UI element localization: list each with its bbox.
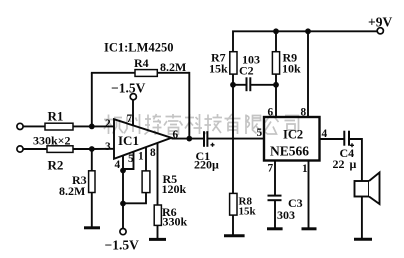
input terminal J2 [17, 146, 23, 152]
capacitor C4 [344, 131, 349, 146]
svg-text:10k: 10k [282, 62, 301, 76]
wire IC2 pin7 to C3 [274, 161, 276, 196]
wire R3 to ground [91, 193, 93, 228]
svg-text:−1.5V: −1.5V [111, 81, 146, 96]
wire pin4 down [122, 156, 124, 171]
wire feedback top left [91, 72, 135, 74]
resistor R7 [230, 52, 237, 74]
op-amp U1 IC1 triangle [114, 119, 172, 159]
IC2 box NE566 [264, 117, 320, 161]
ground (C3) [267, 227, 283, 230]
resistor R2 [47, 146, 73, 153]
svg-text:7: 7 [268, 163, 274, 175]
wire R1 to node A [73, 125, 92, 127]
svg-text:8.2M: 8.2M [59, 184, 85, 198]
resistor R4 [135, 70, 157, 77]
ground (pin1) [302, 227, 317, 230]
svg-text:8: 8 [301, 107, 307, 119]
watermark [104, 114, 299, 135]
svg-text:220μ: 220μ [194, 158, 219, 172]
wire pin1 to R5 [145, 147, 147, 171]
wire output to C1 [172, 138, 204, 140]
resistor R9 [272, 52, 279, 74]
svg-text:μ: μ [350, 157, 357, 171]
wire pin5 bend [123, 152, 134, 169]
resistor R6 [154, 205, 161, 225]
wire node B to pin3 [92, 148, 114, 150]
polarity mark C4 [350, 143, 354, 147]
wire down to node C [122, 171, 124, 204]
wire speaker to ground [361, 197, 363, 239]
svg-text:R2: R2 [48, 158, 64, 173]
wire R7 node to R8 [232, 139, 234, 194]
ground (R8) [224, 234, 245, 237]
wire IC2 pin4 to C4 [320, 138, 344, 140]
wire rail to R9 [275, 31, 277, 51]
node E junction [273, 82, 279, 88]
svg-text:3: 3 [105, 141, 111, 153]
resistor R1 [45, 123, 73, 130]
svg-text:1: 1 [138, 151, 144, 163]
node C junction [120, 201, 126, 207]
junction rail/R9 [273, 28, 279, 34]
polarity mark C1 [211, 143, 215, 147]
wire R8 to ground [232, 215, 234, 235]
wire pin7 up [132, 100, 134, 126]
wire node A to pin2 [92, 125, 114, 127]
svg-text:IC1: IC1 [118, 133, 139, 148]
wire input2 to R2 [23, 148, 47, 150]
svg-text:15k: 15k [239, 206, 257, 218]
svg-text:IC1:LM4250: IC1:LM4250 [104, 41, 173, 55]
resistor R3 [89, 171, 95, 193]
capacitor C2 [247, 77, 251, 91]
ground (R6) [149, 238, 166, 241]
svg-text:120k: 120k [162, 182, 187, 196]
speaker BL [355, 173, 380, 205]
svg-text:1: 1 [302, 163, 308, 175]
junction rail/pin8 [305, 28, 311, 34]
wire input1 to R1 [23, 125, 45, 127]
resistor R5 [142, 171, 150, 193]
svg-text:330k: 330k [163, 215, 188, 229]
svg-text:C2: C2 [239, 64, 254, 78]
ground (R3) [84, 226, 100, 229]
wire R9 to IC2 pin6 [275, 74, 277, 117]
node D junction [230, 82, 236, 88]
wire C4 to speaker [349, 139, 362, 181]
wire R7 down through node D to pin5 line [232, 74, 234, 139]
wire feedback down to output [188, 72, 190, 139]
svg-text:303: 303 [277, 208, 295, 222]
node A junction [89, 124, 95, 130]
wire R5 to node C [123, 193, 146, 204]
wire R4 to corner [157, 72, 189, 74]
wire IC2 pin1 to ground [308, 161, 310, 229]
wire node B down to R3 [91, 149, 93, 171]
capacitor C1 [204, 131, 207, 147]
ground (speaker) [354, 238, 372, 241]
wire R7 top to rail and rail to +9V [233, 31, 377, 51]
svg-text:−1.5V: −1.5V [105, 238, 140, 253]
svg-text:+9V: +9V [368, 15, 392, 30]
svg-text:4: 4 [115, 159, 121, 171]
wire C2 to node E [250, 84, 276, 86]
svg-text:R1: R1 [48, 109, 64, 124]
capacitor C3 [268, 196, 282, 201]
node B junction [89, 146, 95, 152]
terminal -1.5V bottom [120, 229, 126, 235]
terminal -1.5V top [130, 94, 136, 100]
input terminal J1 [17, 123, 23, 129]
wire node D to C2 [233, 84, 246, 86]
wire R2 to node B [73, 148, 92, 150]
wire rail to IC2 pin8 [307, 31, 309, 117]
svg-text:R4: R4 [134, 56, 149, 70]
resistor R8 [230, 193, 237, 215]
wire C1 to IC2 pin5 [207, 138, 264, 140]
wire C3 to ground [274, 200, 276, 228]
svg-text:8: 8 [150, 147, 156, 159]
terminal +9V [377, 28, 383, 34]
svg-text:22: 22 [333, 157, 345, 171]
svg-text:NE566: NE566 [270, 144, 309, 159]
wire pin8 to R6 [157, 144, 159, 206]
wire node A up feedback [91, 73, 93, 127]
wire R6 to ground [157, 225, 159, 239]
junction pin4/5 [120, 168, 126, 174]
junction output/R4 [186, 136, 192, 142]
svg-text:15k: 15k [209, 62, 228, 76]
wire node C to terminal [122, 204, 124, 229]
